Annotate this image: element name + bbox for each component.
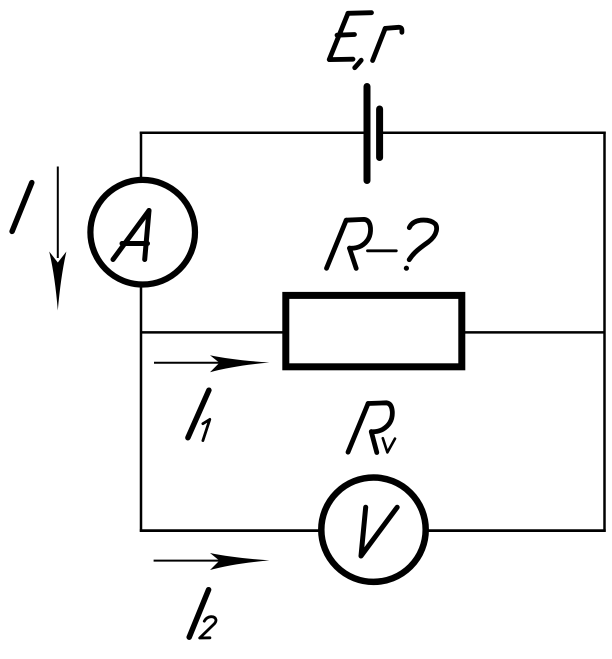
ammeter letter A: [113, 211, 149, 260]
current arrow I2: [154, 560, 250, 562]
voltmeter letter V: [361, 507, 397, 556]
wire middle branch left lead: [141, 331, 283, 334]
wire top-right segment: [377, 132, 606, 135]
wire left lower (ammeter to bottom corner): [140, 286, 143, 532]
wire right side: [603, 132, 606, 532]
label Rv: [348, 403, 392, 453]
wire bottom-left segment: [140, 529, 320, 532]
ammeter A circle: [90, 180, 195, 285]
battery E,r short plate: [376, 109, 383, 158]
label I: [12, 183, 32, 232]
label I2: [189, 590, 208, 638]
resistor R: [286, 295, 462, 366]
label R-?: [327, 219, 437, 268]
battery E,r long plate: [364, 87, 371, 181]
wire middle branch right lead: [465, 331, 605, 334]
label E,r: [329, 13, 402, 68]
voltmeter V circle: [321, 478, 425, 582]
current arrow I1: [154, 362, 250, 364]
current arrow I (down): [57, 167, 59, 259]
wire bottom-right segment: [428, 529, 606, 532]
label I1: [188, 390, 209, 438]
wire top-left segment: [140, 132, 367, 135]
wire left upper (corner to ammeter): [140, 132, 143, 179]
